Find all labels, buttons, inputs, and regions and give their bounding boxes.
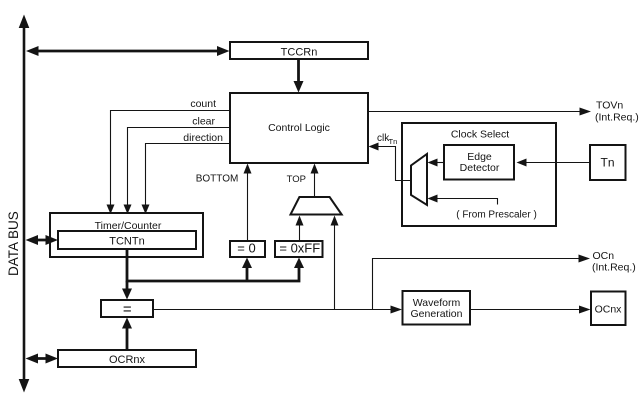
svg-text:(Int.Req.): (Int.Req.) — [592, 262, 636, 274]
wire: Waveform Generation to OCnx — [470, 306, 591, 314]
control logic block — [230, 93, 368, 163]
svg-text:count: count — [190, 98, 216, 110]
register TCCRn — [230, 42, 368, 59]
wire: =0xFF to TOP mux — [296, 216, 304, 242]
OCnx box — [591, 292, 626, 326]
Edge Detector box — [444, 145, 514, 180]
Waveform Generation box — [403, 291, 471, 325]
wire: compare match output to Waveform Generation — [153, 306, 402, 314]
svg-text:=: = — [123, 301, 132, 318]
svg-text:OCnx: OCnx — [595, 304, 623, 316]
svg-text:TOVn: TOVn — [596, 100, 623, 112]
Clock Select container box — [402, 123, 556, 226]
DATA BUS vertical bus — [19, 15, 30, 393]
comparator = — [101, 300, 153, 318]
wire: Edge Detector to clock mux — [428, 159, 445, 167]
From Prescaler wire — [428, 195, 498, 205]
TOP mux — [291, 197, 342, 215]
clock select mux — [411, 154, 427, 205]
svg-text:TCNTn: TCNTn — [109, 236, 144, 248]
register TCNTn — [58, 231, 196, 249]
svg-text:Detector: Detector — [460, 162, 500, 174]
count wire — [107, 111, 231, 215]
wire: Tn to Edge Detector — [517, 159, 591, 167]
svg-text:Clock Select: Clock Select — [451, 129, 509, 141]
svg-text:OCRnx: OCRnx — [109, 354, 146, 366]
wire: bus to TCCRn (bidirectional) — [26, 46, 230, 56]
wire: TCNTn down to comparators (thick bus) — [122, 249, 304, 300]
Tn box — [590, 145, 626, 180]
wire: compare line to TOP mux right input — [331, 216, 339, 310]
svg-text:( From Prescaler ): ( From Prescaler ) — [456, 210, 537, 221]
svg-text:clear: clear — [192, 116, 215, 128]
Timer/Counter box — [50, 213, 203, 257]
TOVn wire — [368, 108, 591, 116]
svg-text:= 0xFF: = 0xFF — [279, 241, 320, 256]
svg-text:Tn: Tn — [600, 156, 614, 170]
clk_Tn wire: clock mux to Control Logic — [369, 143, 412, 181]
TOP mux output wire — [311, 164, 319, 197]
wire: TCCRn to Control Logic — [294, 59, 304, 93]
svg-text:(Int.Req.): (Int.Req.) — [595, 112, 639, 124]
clear wire — [124, 128, 231, 215]
OCn interrupt wire — [373, 255, 591, 310]
svg-text:OCn: OCn — [593, 250, 615, 262]
svg-text:TCCRn: TCCRn — [281, 47, 318, 59]
svg-text:Tn: Tn — [389, 137, 398, 146]
svg-text:TOP: TOP — [287, 174, 306, 185]
wire: bus to OCRnx (bidirectional) — [26, 354, 59, 364]
svg-text:DATA BUS: DATA BUS — [6, 211, 21, 276]
wire: OCRnx up to comparator = — [122, 318, 132, 351]
wire: bus to TCNTn (bidirectional) — [26, 235, 59, 245]
comparator =0xFF — [275, 241, 323, 258]
BOTTOM wire: =0 up to Control Logic — [244, 164, 252, 242]
comparator =0 — [230, 241, 265, 258]
svg-text:Control Logic: Control Logic — [268, 122, 330, 134]
direction wire — [142, 144, 231, 215]
svg-text:Generation: Generation — [411, 308, 463, 320]
svg-text:= 0: = 0 — [237, 241, 255, 256]
register OCRnx — [58, 350, 196, 367]
svg-text:direction: direction — [183, 132, 223, 144]
svg-text:BOTTOM: BOTTOM — [196, 174, 239, 185]
